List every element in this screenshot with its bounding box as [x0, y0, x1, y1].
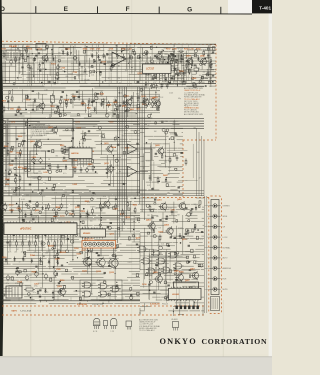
band1 part 70: [188, 69, 190, 72]
wire: [79, 205, 81, 229]
audio part 4: [146, 142, 147, 143]
diode D213: [25, 213, 27, 215]
wire: [145, 274, 153, 276]
svg-text:4.7u: 4.7u: [33, 292, 36, 294]
wire: [146, 263, 163, 265]
xtal part 8: [210, 60, 212, 62]
wire: [140, 131, 145, 133]
if part 9: [148, 103, 150, 105]
logic part 69: [186, 256, 188, 258]
control part 88: [35, 225, 37, 227]
wire: [27, 127, 67, 129]
wire: [2, 115, 25, 117]
audio part 2: [165, 131, 168, 134]
logic wire v4: [149, 254, 151, 277]
wire: [115, 45, 117, 56]
logic gate U47: [163, 267, 170, 273]
mpx part 8: [24, 167, 26, 170]
mpx part 49: [117, 143, 119, 145]
control part 112: [54, 223, 55, 224]
pll part 10: [167, 62, 169, 64]
wire: [140, 203, 160, 205]
mpx part 10: [24, 168, 27, 171]
signal bus line 3: [2, 123, 204, 125]
wire: [2, 287, 12, 289]
band1 part 78: [94, 60, 96, 62]
wire: [71, 96, 99, 98]
diode D216: [42, 206, 44, 208]
diode D403: [194, 226, 196, 228]
wire: [163, 81, 168, 83]
wire: [140, 269, 152, 271]
wire: [140, 310, 145, 312]
transistor Q815: [39, 103, 45, 109]
wire: [66, 94, 68, 101]
svg-text:0.022: 0.022: [202, 49, 206, 51]
control part 58: [102, 206, 104, 208]
band1 part 54: [83, 50, 86, 53]
wire segment rv1: [192, 144, 194, 178]
control part 1: [32, 218, 34, 220]
control part 28: [16, 266, 18, 268]
wire: [166, 67, 172, 69]
svg-text:C667: C667: [109, 121, 114, 123]
pll part 2: [172, 77, 175, 79]
transistor Q901: [187, 59, 193, 65]
band1 part 60: [176, 59, 178, 61]
band1 part 28: [199, 80, 202, 83]
svg-text:DISPLAY UNIT: DISPLAY UNIT: [92, 303, 103, 306]
svg-text:R622: R622: [18, 136, 23, 138]
bundle wire w2: [139, 87, 141, 204]
wire: [140, 224, 155, 226]
wire: [140, 193, 150, 195]
band1 part 41: [38, 52, 40, 54]
control part 107: [82, 221, 84, 224]
band1 part 58: [175, 55, 176, 56]
band1 part 10: [92, 65, 93, 67]
wire: [140, 197, 157, 199]
band1 part 1: [144, 51, 148, 55]
resistor R712: [209, 61, 211, 63]
control part 87: [16, 268, 17, 269]
wire: [2, 303, 36, 305]
wire: [2, 282, 24, 284]
IF transformer T87: [50, 96, 54, 103]
mpx part 56: [29, 183, 31, 185]
svg-text:Q270: Q270: [158, 231, 163, 233]
svg-text:1S953: 1S953: [4, 205, 9, 207]
filter capacitor C33: [25, 276, 29, 280]
band1 part 9: [33, 58, 36, 61]
band1 part 11: [37, 49, 39, 51]
logic gate U53: [84, 291, 91, 297]
wire vertical left 2: [5, 120, 7, 187]
control part 85: [62, 235, 65, 238]
band1 part 46: [159, 51, 162, 53]
if part 43: [78, 95, 80, 97]
wire segment r6: [150, 164, 162, 166]
logic part 40: [167, 295, 170, 298]
control part 21: [100, 219, 101, 220]
band1 part 86: [121, 51, 123, 53]
svg-text:C212: C212: [9, 205, 14, 207]
mpx part 47: [62, 151, 65, 153]
wire: [15, 56, 17, 71]
wire: [2, 124, 27, 126]
diode D222: [80, 213, 82, 215]
control part 118: [123, 221, 124, 222]
svg-text:0.022: 0.022: [169, 92, 173, 94]
resistor R641: [7, 149, 9, 151]
band1 part 30: [154, 66, 156, 68]
wire: [143, 293, 161, 295]
wire: [179, 304, 181, 315]
wire: [164, 47, 169, 49]
capacitor C715: [168, 55, 170, 57]
wire: [8, 163, 31, 165]
wire: [78, 90, 80, 101]
counter block components row: [145, 82, 147, 84]
wire: [2, 109, 27, 111]
control part 14: [27, 206, 30, 209]
svg-text:LOCK: LOCK: [223, 237, 229, 239]
wire: [19, 198, 21, 237]
wire: [12, 89, 14, 95]
wire: [177, 55, 179, 65]
transistor Q632: [143, 100, 149, 106]
band1 part 23: [194, 54, 196, 56]
if part 24: [9, 91, 10, 94]
band1 part 96: [74, 77, 76, 79]
svg-text:4.7u: 4.7u: [54, 193, 57, 195]
svg-text:47: 47: [152, 188, 154, 190]
svg-text:E: E: [64, 6, 69, 13]
wire: [88, 102, 90, 117]
if part 6: [65, 101, 67, 104]
wire: [173, 202, 175, 224]
if part 38: [150, 113, 151, 114]
mpx part 61: [118, 137, 119, 138]
wire: [159, 206, 177, 208]
wire: [24, 296, 61, 298]
wire: [148, 249, 150, 300]
band1 part 7: [151, 46, 153, 49]
wire: [187, 49, 193, 51]
wire: [151, 214, 153, 279]
wire: [198, 81, 205, 83]
indicator feed wire 3: [201, 136, 203, 196]
svg-text:Q902: Q902: [200, 56, 205, 58]
wire: [27, 249, 58, 251]
wire: [2, 57, 25, 59]
logic part 22: [159, 272, 161, 275]
if part 55: [156, 103, 157, 104]
wire: [140, 232, 147, 234]
mpx part 50: [123, 152, 125, 155]
resistor array R133: [28, 240, 30, 242]
wire: [21, 74, 88, 76]
wire: [2, 258, 12, 260]
svg-text:R742: R742: [196, 48, 201, 51]
wire: [42, 224, 44, 288]
diode D725: [146, 51, 148, 53]
title block: [252, 0, 272, 13]
control part 4: [51, 218, 53, 221]
wire: [2, 65, 16, 67]
logic part 8: [188, 261, 190, 263]
wire: [2, 153, 38, 155]
wire: [52, 198, 95, 200]
wire: [149, 278, 157, 280]
wire: [144, 228, 146, 279]
power diode D31: [5, 258, 7, 260]
rail y215: [2, 215, 140, 217]
wire: [2, 93, 47, 95]
indicator bus 1: [204, 196, 206, 313]
control part 95: [113, 254, 116, 257]
system control IC U101 (uPD1705): [4, 223, 77, 235]
wire: [2, 90, 29, 92]
logic part 36: [185, 207, 187, 209]
wire: [6, 229, 8, 264]
wire: [184, 52, 188, 54]
svg-text:560: 560: [90, 221, 93, 223]
wire: [45, 204, 47, 237]
control part 76: [130, 294, 132, 296]
svg-text:C667: C667: [9, 152, 14, 154]
svg-text:220: 220: [38, 68, 41, 70]
pll part 15: [164, 59, 165, 60]
transistor Q407: [192, 272, 198, 278]
wire: [2, 273, 44, 275]
capacitor C212: [18, 205, 20, 207]
if part 13: [102, 102, 104, 105]
pll part 11: [173, 55, 175, 57]
if part 2: [152, 99, 155, 102]
if part 46: [93, 100, 95, 102]
wire: [140, 209, 157, 211]
capacitor C612: [66, 147, 68, 149]
band1 part 20: [137, 56, 139, 59]
svg-text:220: 220: [109, 68, 112, 70]
if part 31: [91, 100, 93, 102]
resistor R228: [122, 209, 124, 211]
if part 20: [88, 114, 91, 117]
bottom rail C: [2, 86, 204, 88]
xtal part 4: [208, 81, 210, 83]
wire: [2, 195, 20, 197]
signal bus line 2: [2, 120, 204, 122]
svg-text:0.022: 0.022: [34, 173, 38, 175]
wire driver collector 2: [100, 248, 102, 257]
control part 17: [66, 250, 69, 253]
wire: [53, 90, 55, 98]
wire: [72, 46, 74, 72]
wire: [26, 165, 64, 167]
svg-text:ONKYO: ONKYO: [160, 337, 197, 346]
resistor R611: [61, 147, 63, 149]
transistor Q633: [155, 101, 161, 107]
svg-text:Q827: Q827: [130, 109, 135, 111]
svg-text:R692: R692: [22, 168, 27, 170]
band1 part 42: [93, 60, 95, 64]
mpx part 78: [115, 147, 116, 148]
band1 part 63: [98, 59, 100, 61]
logic part 28: [196, 236, 198, 239]
wire: [129, 201, 131, 233]
wire: [140, 217, 154, 219]
wire: [178, 313, 184, 315]
wire: [202, 61, 209, 63]
legend package 2: [104, 321, 108, 326]
svg-text:Q602: Q602: [48, 127, 53, 129]
mpx part 29: [136, 142, 138, 144]
control part 105: [67, 238, 69, 240]
mpx part 73: [13, 190, 15, 192]
logic part 4: [191, 249, 193, 252]
capacitor C632: [149, 175, 151, 177]
control part 57: [59, 222, 62, 224]
audio rail 2: [2, 163, 92, 165]
control part 31: [70, 240, 73, 243]
control part 38: [101, 217, 102, 218]
if part 50: [36, 107, 38, 111]
logic part 63: [174, 273, 176, 275]
wire: [9, 121, 40, 123]
control part 79: [116, 286, 118, 289]
wire: [2, 244, 38, 246]
band1 part 73: [206, 74, 209, 76]
electrolytic C250: [65, 211, 68, 214]
wire: [139, 152, 141, 194]
wire: [170, 65, 172, 83]
band1 part 69: [102, 81, 103, 82]
audio part 15: [167, 129, 169, 131]
wire: [62, 100, 64, 117]
wire: [140, 169, 151, 171]
logic gate U51: [84, 282, 91, 288]
svg-text:M58655: M58655: [83, 233, 91, 235]
logic wire h4: [139, 260, 197, 262]
wire: [168, 54, 170, 78]
control part 73: [27, 293, 30, 296]
wire: [91, 250, 93, 294]
svg-text:330: 330: [203, 71, 206, 73]
if part 15: [58, 112, 61, 115]
control part 39: [90, 198, 93, 201]
if part 34: [30, 99, 31, 100]
indicator block dashed outline: [209, 196, 222, 314]
wire: [105, 56, 107, 82]
control part 123: [88, 250, 90, 252]
mpx part 28: [2, 120, 6, 124]
band1 part 49: [70, 52, 71, 53]
svg-text:1S1588: 1S1588: [20, 133, 26, 135]
wire: [22, 201, 24, 244]
svg-text:Q406: Q406: [174, 270, 179, 273]
wire: [36, 140, 38, 155]
capacitor C724: [103, 53, 105, 55]
mpx part 15: [11, 159, 13, 161]
svg-text:TP-1 10.7MHz ADJ: TP-1 10.7MHz ADJ: [32, 134, 47, 137]
wire: [102, 302, 104, 304]
svg-text:E C B: E C B: [93, 331, 97, 333]
band1 part 99: [104, 63, 106, 65]
resistor array R132: [22, 240, 24, 242]
audio part 18: [151, 188, 153, 190]
logic part 38: [196, 292, 197, 293]
wire: [145, 159, 154, 161]
control part 32: [115, 245, 117, 248]
filter capacitor C36: [54, 272, 58, 276]
svg-text:0.01: 0.01: [33, 99, 36, 101]
logic part 34: [164, 281, 166, 284]
wire: [156, 299, 163, 301]
svg-text:470u: 470u: [6, 283, 10, 285]
svg-text:Q111-Q117: Q111-Q117: [84, 239, 94, 241]
control part 26: [42, 242, 45, 245]
diode D819: [73, 96, 75, 98]
logic part 50: [187, 261, 189, 263]
bottom dashed boundary 1: [2, 305, 204, 307]
svg-text:560: 560: [2, 110, 5, 112]
control part 84: [118, 228, 120, 230]
wire: [142, 48, 144, 61]
wire: [133, 216, 135, 242]
svg-text:L731: L731: [128, 49, 132, 51]
svg-text:Q611: Q611: [104, 143, 109, 145]
if part 21: [32, 108, 34, 110]
logic part 59: [175, 279, 177, 281]
wire: [28, 54, 30, 81]
logic part 57: [186, 229, 188, 232]
if part 49: [116, 107, 118, 110]
mpx part 33: [82, 136, 84, 139]
op-amp U701: [112, 52, 126, 66]
wire: [41, 94, 43, 114]
control part 92: [24, 252, 26, 254]
mpx part 13: [48, 139, 49, 140]
control part 61: [99, 224, 101, 226]
wire: [182, 215, 184, 254]
band1 part 3: [152, 85, 154, 88]
wire: [89, 58, 91, 77]
svg-text:C253: C253: [34, 284, 39, 286]
power diode D32: [14, 257, 16, 259]
band1 part 87: [93, 70, 95, 73]
svg-text:30p: 30p: [205, 78, 208, 80]
wire: [140, 172, 151, 174]
resistor R632: [185, 159, 187, 161]
svg-text:47: 47: [108, 78, 110, 80]
control part 13: [61, 264, 63, 266]
resistor R817: [60, 98, 62, 100]
band1 part 95: [99, 71, 101, 73]
logic gate U44: [158, 258, 165, 264]
wire: [176, 62, 178, 87]
band1 part 4: [56, 78, 58, 80]
diode D79: [52, 56, 54, 58]
band1 part 74: [128, 63, 129, 64]
svg-text:10u: 10u: [60, 205, 63, 207]
wire: [78, 50, 80, 78]
mpx part 67: [63, 195, 65, 197]
wire: [2, 293, 41, 295]
diode D814: [34, 98, 36, 100]
band1 part 77: [48, 80, 50, 82]
logic part 47: [183, 236, 185, 238]
